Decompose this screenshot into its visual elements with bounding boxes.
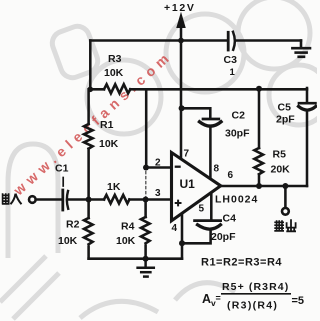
wire C2 branch [182, 108, 211, 118]
capacitor C2 [200, 119, 222, 179]
svg-text:C2: C2 [232, 110, 246, 122]
wire +12V vertical to pin 7 [180, 41, 183, 160]
ground top right [292, 41, 310, 57]
formula Av gain [202, 281, 304, 312]
svg-text:20pF: 20pF [211, 231, 236, 243]
node output terminal junction [282, 183, 288, 189]
svg-text:R3: R3 [108, 53, 122, 65]
capacitor C4 [195, 195, 221, 230]
resistor R2 [84, 200, 93, 259]
op-amp plus sign [175, 200, 182, 207]
wire top rail right segment [236, 39, 302, 42]
capacitor C5 [299, 88, 316, 186]
wire pin 4 vertical [181, 214, 184, 259]
svg-text:10K: 10K [104, 67, 124, 79]
wire R1 bottom lead [87, 149, 90, 200]
svg-text:3: 3 [155, 188, 161, 199]
resistor R3 [104, 84, 130, 93]
wire 1K to pin 3 [129, 198, 171, 201]
wire C1 to node A [69, 198, 104, 201]
wire output row [221, 185, 308, 188]
svg-text:R5+ (R3R4): R5+ (R3R4) [222, 281, 289, 293]
node pin 4 C4 junction [179, 240, 185, 246]
capacitor C1 [63, 178, 68, 211]
node R5 top junction [256, 86, 262, 92]
resistor R4 [141, 200, 150, 259]
svg-text:10K: 10K [116, 235, 136, 247]
svg-text:2pF: 2pF [276, 114, 295, 126]
svg-text:R2: R2 [66, 219, 80, 231]
svg-text:=5: =5 [292, 295, 305, 307]
svg-text:6: 6 [228, 170, 234, 181]
resistor 1K [104, 195, 129, 204]
label input Chinese [2, 193, 22, 204]
svg-text:8: 8 [214, 164, 220, 175]
+12V supply arrow [177, 14, 185, 41]
wire R3 to feedback column and across to C5 corner [130, 88, 307, 91]
svg-text:R4: R4 [121, 221, 135, 233]
wire feedback vertical to pin 2 [145, 89, 148, 167]
svg-text:4: 4 [172, 223, 178, 234]
svg-text:+12V: +12V [164, 2, 196, 14]
node ground junction [143, 256, 149, 262]
svg-text:=: = [216, 293, 221, 303]
op-amp minus sign [175, 166, 181, 168]
wire C4 bottom to pin 4 [182, 231, 211, 244]
output terminal [282, 208, 289, 215]
resistor R1 [84, 124, 93, 149]
resistor R5 [254, 89, 263, 186]
svg-text:(R3)(R4): (R3)(R4) [227, 300, 278, 312]
svg-text:U1: U1 [180, 177, 196, 191]
svg-text:1: 1 [230, 67, 236, 78]
node output R5 junction [256, 183, 262, 189]
wire bottom rail [89, 257, 182, 260]
svg-text:C4: C4 [223, 213, 237, 225]
svg-text:LH0024: LH0024 [215, 194, 258, 206]
svg-text:C1: C1 [55, 163, 69, 175]
svg-text:R1: R1 [100, 119, 114, 131]
label output Chinese [274, 219, 296, 231]
svg-text:10K: 10K [99, 138, 119, 150]
svg-text:10K: 10K [58, 235, 78, 247]
node junction +12V rail [178, 38, 184, 44]
wire input to C1 [36, 198, 61, 201]
wire output stub [284, 186, 287, 208]
node pin 2 junction [143, 165, 149, 171]
node pin 3 junction R4 top [143, 197, 149, 203]
svg-text:20K: 20K [271, 164, 291, 176]
svg-text:R1=R2=R3=R4: R1=R2=R3=R4 [201, 257, 282, 269]
capacitor C3 [228, 32, 235, 50]
svg-text:1K: 1K [107, 181, 121, 193]
op-amp U1 [172, 153, 221, 221]
wire pin 2 stub [146, 166, 172, 169]
svg-text:C5: C5 [278, 102, 292, 114]
node A input bias junction [86, 197, 92, 203]
wire faint scan artifact between pin2 and pin3 nodes [145, 172, 147, 198]
node R1 R3 junction [88, 87, 94, 93]
svg-text:5: 5 [199, 204, 205, 215]
svg-text:30pF: 30pF [225, 128, 250, 140]
wire R1 vertical lead [87, 89, 90, 124]
input terminal [29, 196, 36, 203]
svg-text:C3: C3 [224, 54, 238, 66]
svg-text:7: 7 [184, 149, 190, 160]
wire R3 left lead [90, 88, 104, 91]
ground bottom [138, 259, 154, 277]
svg-text:A: A [202, 292, 211, 306]
watermark red diagonal text www.elecfans.com [10, 47, 176, 199]
wire top rail left segment [90, 39, 226, 42]
svg-text:2: 2 [155, 158, 161, 169]
node C2 branch junction [179, 105, 185, 111]
svg-text:R5: R5 [273, 149, 287, 161]
wire left column from rail down [89, 41, 92, 90]
